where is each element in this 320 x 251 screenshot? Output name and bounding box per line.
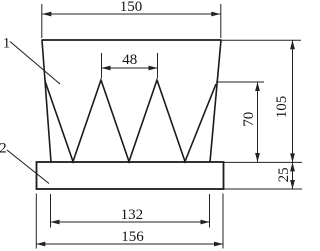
hopper right wall <box>210 40 221 162</box>
dimension 150 <box>42 4 221 38</box>
zigzag teeth <box>45 80 216 162</box>
dimension 70 <box>216 82 264 162</box>
dimension 132 <box>51 194 210 228</box>
svg-text:2: 2 <box>0 141 7 157</box>
svg-text:150: 150 <box>120 0 143 15</box>
dimension 48 <box>102 53 158 78</box>
svg-text:132: 132 <box>121 207 144 223</box>
dimension 156 <box>36 194 223 249</box>
leader line 1 <box>10 42 60 85</box>
leader line 2 <box>7 150 49 184</box>
svg-text:1: 1 <box>3 35 11 51</box>
hopper left wall <box>42 40 51 162</box>
dimension 105 <box>221 40 301 162</box>
svg-text:48: 48 <box>122 52 137 68</box>
base plate <box>37 162 224 189</box>
svg-text:105: 105 <box>274 96 290 119</box>
svg-text:25: 25 <box>276 167 292 182</box>
svg-text:70: 70 <box>241 112 257 127</box>
dimension 25 <box>224 162 303 189</box>
hopper top edge <box>42 39 222 41</box>
svg-text:156: 156 <box>121 229 144 245</box>
